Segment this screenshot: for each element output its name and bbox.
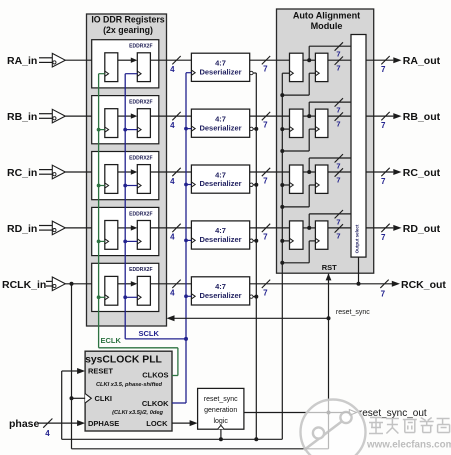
wire DDR FF1 to FF2 RCLK bbox=[118, 281, 138, 286]
svg-text:7: 7 bbox=[336, 120, 340, 129]
node SCLK rail junction RB bbox=[184, 127, 188, 131]
svg-text:Deserializer: Deserializer bbox=[199, 179, 241, 188]
node align clock rail junction RD bbox=[280, 239, 284, 243]
svg-text:CLKI: CLKI bbox=[95, 394, 113, 403]
svg-text:7: 7 bbox=[336, 175, 340, 184]
flip-flop align stage2 RC bbox=[315, 165, 328, 193]
wire buffer RB to DDR register bbox=[65, 115, 105, 117]
wire align FF1 to FF2 RB bbox=[303, 115, 315, 117]
svg-text:EDDRX2F: EDDRX2F bbox=[129, 211, 152, 217]
svg-text:7: 7 bbox=[336, 64, 340, 73]
flip-flop DDR left RB bbox=[105, 109, 118, 138]
deserializer 4:7 RCLK bbox=[191, 277, 249, 305]
input buffer RCLK bbox=[46, 277, 65, 291]
svg-text:7: 7 bbox=[336, 50, 340, 59]
node SCLK junction RB bbox=[123, 128, 127, 132]
node align clock rail junction RB bbox=[280, 127, 284, 131]
svg-text:Auto Alignment: Auto Alignment bbox=[293, 11, 360, 21]
wire RCK output bbox=[250, 280, 392, 288]
arrow reset_sync_out bbox=[349, 410, 356, 416]
wire SCLK to deserializer clock RB bbox=[186, 128, 191, 130]
svg-text:RST: RST bbox=[322, 263, 337, 272]
node reset_sync out junction bbox=[327, 411, 331, 415]
wire SCLK to deserializer clock RD bbox=[186, 239, 191, 241]
node align clock branch RA bbox=[280, 93, 284, 97]
node ECLK junction RC bbox=[97, 184, 101, 188]
node align clock rail junction RC bbox=[280, 183, 284, 187]
wire reset_sync vertical bbox=[328, 274, 330, 449]
wire bypass to mux RD bbox=[309, 210, 351, 228]
svg-text:7: 7 bbox=[381, 233, 386, 242]
wire DDR FF1 to FF2 RD bbox=[118, 225, 138, 230]
svg-text:RA_in: RA_in bbox=[7, 55, 37, 67]
svg-text:reset_sync: reset_sync bbox=[336, 309, 370, 316]
svg-text:Module: Module bbox=[311, 21, 343, 31]
svg-text:7: 7 bbox=[381, 177, 386, 186]
node align tap RC bbox=[307, 170, 311, 174]
svg-text:4:7: 4:7 bbox=[215, 282, 226, 291]
svg-text:7: 7 bbox=[381, 289, 386, 298]
node SCLK branch junction bbox=[184, 337, 188, 341]
deserializer sync pin RD bbox=[250, 239, 257, 242]
arrow into reset generation bbox=[190, 420, 198, 426]
svg-text:CLKOS: CLKOS bbox=[142, 371, 168, 380]
svg-text:ECLK: ECLK bbox=[101, 336, 122, 345]
svg-text:RCLK_in: RCLK_in bbox=[2, 279, 46, 291]
node SCLK rail junction RD bbox=[184, 239, 188, 243]
wire SCLK stub RCLK bbox=[125, 296, 137, 298]
wire ECLK rail bbox=[99, 74, 178, 376]
DDR register cell RB bbox=[92, 96, 159, 144]
wire alignment clock rail bbox=[281, 73, 283, 439]
deserializer sync pin RCLK bbox=[250, 295, 257, 298]
wire align FF1 to FF2 RC bbox=[303, 171, 315, 173]
svg-text:Deserializer: Deserializer bbox=[199, 291, 241, 300]
wire mux to output RC bbox=[366, 168, 393, 176]
svg-text:7: 7 bbox=[381, 121, 386, 130]
node SCLK junction RC bbox=[123, 184, 127, 188]
arrow reset into DDR box bbox=[167, 315, 175, 321]
wire phase input bbox=[38, 419, 78, 428]
wire align clock FF2 RA bbox=[282, 73, 315, 95]
svg-text:RD_out: RD_out bbox=[403, 223, 441, 235]
wire ECLK stub RCLK bbox=[99, 296, 105, 298]
svg-text:Deserializer: Deserializer bbox=[199, 67, 241, 76]
arrow into PLL DPHASE bbox=[77, 420, 85, 426]
svg-text:DPHASE: DPHASE bbox=[88, 419, 119, 428]
deserializer 4:7 RD bbox=[191, 221, 249, 249]
flip-flop DDR left RA bbox=[105, 53, 118, 82]
reset_sync generation logic block bbox=[198, 388, 244, 429]
svg-text:4: 4 bbox=[45, 429, 50, 438]
wire deserializer to alignment FF RC bbox=[250, 168, 290, 176]
node ECLK junction RD bbox=[97, 240, 101, 244]
output arrow RB bbox=[393, 113, 401, 119]
wire buffer RCLK to DDR register bbox=[65, 283, 105, 285]
wire bypass to mux RC bbox=[309, 154, 351, 172]
wire ECLK stub RC bbox=[99, 185, 105, 187]
svg-text:7: 7 bbox=[263, 232, 268, 241]
wire DDR FF1 to FF2 RA bbox=[118, 58, 138, 63]
svg-text:7: 7 bbox=[336, 217, 340, 226]
watermark CJK text bbox=[369, 418, 450, 434]
wire buffer RA to DDR register bbox=[65, 59, 105, 61]
svg-text:4:7: 4:7 bbox=[215, 114, 226, 123]
PLL sysCLOCK block bbox=[85, 351, 172, 431]
svg-text:reset_sync: reset_sync bbox=[204, 396, 238, 403]
wire ECLK stub RB bbox=[99, 129, 105, 131]
svg-text:RCK_out: RCK_out bbox=[401, 279, 446, 291]
wire DDR to deserializer RC bbox=[150, 168, 191, 176]
node reset generation clock junction bbox=[219, 437, 223, 441]
svg-text:7: 7 bbox=[336, 161, 340, 170]
svg-text:LOCK: LOCK bbox=[146, 419, 168, 428]
wire deserializer to alignment FF RD bbox=[250, 224, 290, 232]
svg-text:CLKI x3.5, phase-shifted: CLKI x3.5, phase-shifted bbox=[96, 382, 163, 388]
svg-text:7: 7 bbox=[263, 65, 268, 74]
svg-text:generation: generation bbox=[204, 407, 237, 414]
svg-text:Deserializer: Deserializer bbox=[199, 123, 241, 132]
wire align FF2 to mux RD bbox=[328, 224, 351, 232]
wire align clock FF1 RA bbox=[282, 72, 289, 74]
wire SCLK to deserializer clock RCLK bbox=[186, 295, 191, 297]
flip-flop DDR right RD bbox=[137, 221, 150, 250]
flip-flop align stage2 RD bbox=[315, 221, 328, 249]
wire SCLK rail in DDR box bbox=[125, 74, 186, 339]
svg-text:EDDRX2F: EDDRX2F bbox=[129, 100, 152, 106]
wire CLKI stub bbox=[72, 397, 86, 399]
wire mux to output RB bbox=[366, 112, 393, 120]
svg-text:RC_out: RC_out bbox=[403, 167, 441, 179]
node CLKI junction bbox=[70, 396, 74, 400]
wire align FF2 to mux RB bbox=[328, 112, 351, 120]
flip-flop DDR right RB bbox=[137, 109, 150, 138]
wire DDR to deserializer RB bbox=[150, 112, 191, 120]
wire bottom clock net bbox=[62, 371, 283, 439]
svg-text:4: 4 bbox=[170, 121, 175, 130]
svg-text:RESET: RESET bbox=[88, 367, 113, 376]
wire deserializer sync rail bbox=[255, 73, 257, 439]
input buffer RD bbox=[39, 221, 65, 235]
wire align clock FF2 RC bbox=[282, 185, 315, 207]
wire align FF1 to FF2 RA bbox=[303, 59, 315, 61]
flip-flop align stage1 RB bbox=[290, 109, 304, 137]
svg-text:IO DDR Registers: IO DDR Registers bbox=[91, 15, 164, 25]
IO DDR Registers module box bbox=[87, 14, 167, 326]
svg-text:RC_in: RC_in bbox=[7, 167, 37, 179]
wire SCLK to deserializer clock RA bbox=[186, 72, 191, 74]
wire bypass to mux RB bbox=[309, 98, 351, 116]
flip-flop DDR left RCLK bbox=[105, 276, 118, 305]
deserializer sync pin RB bbox=[250, 127, 257, 130]
flip-flop align stage1 RC bbox=[290, 165, 304, 193]
flip-flop DDR right RA bbox=[137, 53, 150, 82]
svg-text:4: 4 bbox=[170, 65, 175, 74]
wire SCLK stub RC bbox=[125, 185, 137, 187]
wire reset generation clock leg bbox=[220, 429, 222, 439]
wire align clock FF1 RB bbox=[282, 128, 289, 130]
svg-text:7: 7 bbox=[263, 288, 268, 297]
svg-text:4: 4 bbox=[170, 177, 175, 186]
input buffer RA bbox=[39, 53, 65, 67]
svg-text:Deserializer: Deserializer bbox=[199, 235, 241, 244]
wire align FF2 to mux RC bbox=[328, 168, 351, 176]
wire align clock FF1 RC bbox=[282, 184, 289, 186]
wire DDR FF1 to FF2 RB bbox=[118, 113, 138, 118]
PLL clock chevron CLKI bbox=[85, 394, 91, 403]
svg-text:EDDRX2F: EDDRX2F bbox=[129, 267, 152, 273]
svg-text:7: 7 bbox=[336, 106, 340, 115]
wire SCLK stub RA bbox=[125, 73, 137, 75]
wire mux to output RD bbox=[366, 224, 393, 232]
wire RCLK feedback leg bbox=[72, 284, 329, 449]
svg-text:CLKOK: CLKOK bbox=[142, 399, 169, 408]
svg-text:SCLK: SCLK bbox=[139, 329, 160, 338]
node align clock branch RD bbox=[280, 261, 284, 265]
DDR register cell RA bbox=[92, 40, 159, 88]
deserializer sync pin RC bbox=[250, 183, 257, 186]
wire DDR to deserializer RD bbox=[150, 224, 191, 232]
output arrow RA bbox=[393, 57, 401, 63]
svg-text:RB_in: RB_in bbox=[7, 111, 37, 123]
deserializer 4:7 RB bbox=[191, 109, 249, 137]
output arrow RD bbox=[393, 225, 401, 231]
DDR register cell RC bbox=[92, 152, 159, 200]
svg-text:sysCLOCK PLL: sysCLOCK PLL bbox=[85, 355, 162, 366]
node sync rail junction RD bbox=[254, 239, 258, 243]
wire deserializer to alignment FF RA bbox=[250, 56, 290, 64]
svg-text:EDDRX2F: EDDRX2F bbox=[129, 44, 152, 50]
output arrow RCK bbox=[392, 281, 400, 287]
node align tap RD bbox=[307, 226, 311, 230]
node sync rail junction RC bbox=[254, 183, 258, 187]
wire reset_sync to DDR registers bbox=[173, 317, 329, 319]
DDR register cell RD bbox=[92, 207, 159, 255]
svg-text:4:7: 4:7 bbox=[215, 226, 226, 235]
flip-flop align stage1 RA bbox=[290, 53, 304, 81]
input buffer RC bbox=[39, 165, 65, 179]
node align clock branch RC bbox=[280, 205, 284, 209]
svg-text:4: 4 bbox=[170, 233, 175, 242]
wire bypass to mux RA bbox=[309, 42, 351, 60]
svg-text:Output select: Output select bbox=[355, 224, 360, 253]
wire buffer RD to DDR register bbox=[65, 227, 105, 229]
node SCLK junction RCLK bbox=[123, 295, 127, 299]
reset_sync generation logic clock chevron bbox=[218, 425, 225, 429]
svg-text:www.elecfans.com: www.elecfans.com bbox=[366, 440, 451, 451]
node SCLK rail junction RCLK bbox=[184, 294, 188, 298]
watermark logo circle bbox=[301, 400, 366, 455]
svg-text:4:7: 4:7 bbox=[215, 59, 226, 68]
svg-text:RD_in: RD_in bbox=[7, 223, 37, 235]
svg-text:RB_out: RB_out bbox=[403, 111, 441, 123]
svg-text:reset_sync_out: reset_sync_out bbox=[359, 408, 427, 419]
flip-flop DDR right RCLK bbox=[137, 276, 150, 305]
node RCLK branch junction bbox=[70, 282, 74, 286]
node align tap RB bbox=[307, 114, 311, 118]
deserializer 4:7 RC bbox=[191, 165, 249, 193]
svg-text:7: 7 bbox=[381, 65, 386, 74]
node ECLK junction RB bbox=[97, 128, 101, 132]
wire deserializer to alignment FF RB bbox=[250, 112, 290, 120]
flip-flop align stage1 RD bbox=[290, 221, 304, 249]
node sync rail bottom junction bbox=[254, 437, 258, 441]
wire ECLK stub RD bbox=[99, 240, 105, 242]
node sync rail junction RCLK bbox=[254, 295, 258, 299]
wire align clock FF2 RB bbox=[282, 129, 315, 151]
wire DDR FF1 to FF2 RC bbox=[118, 169, 138, 174]
node SCLK junction RD bbox=[123, 240, 127, 244]
flip-flop align stage2 RA bbox=[315, 53, 328, 81]
wire SCLK vertical to deserializers bbox=[172, 73, 186, 403]
svg-text:phase: phase bbox=[9, 418, 40, 430]
arrow RST into alignment module bbox=[326, 273, 332, 280]
wire align FF2 to mux RA bbox=[328, 57, 351, 65]
wire DDR to deserializer RCLK bbox=[150, 280, 191, 288]
node sync rail junction RB bbox=[254, 127, 258, 131]
svg-text:4: 4 bbox=[170, 289, 175, 298]
wire reset_sync_out bbox=[244, 412, 350, 414]
svg-text:7: 7 bbox=[336, 231, 340, 240]
svg-text:(2x gearing): (2x gearing) bbox=[103, 25, 153, 35]
DDR register cell RCLK bbox=[92, 263, 159, 311]
wire align clock FF2 RD bbox=[282, 241, 315, 263]
deserializer sync pin RA bbox=[250, 71, 257, 74]
wire SCLK to deserializer clock RC bbox=[186, 184, 191, 186]
flip-flop DDR left RD bbox=[105, 221, 118, 250]
node SCLK rail junction RC bbox=[184, 183, 188, 187]
wire DDR to deserializer RA bbox=[150, 56, 191, 64]
deserializer 4:7 RA bbox=[191, 53, 249, 81]
wire SCLK stub RD bbox=[125, 240, 137, 242]
node reset_sync to DDR junction bbox=[327, 316, 331, 320]
node RCK mux clock junction bbox=[357, 282, 361, 286]
output select mux block bbox=[351, 35, 366, 258]
wire align FF1 to FF2 RD bbox=[303, 227, 315, 229]
output arrow RC bbox=[393, 169, 401, 175]
wire SCLK stub RB bbox=[125, 129, 137, 131]
node align clock branch RB bbox=[280, 149, 284, 153]
wire mux clock stub bbox=[358, 257, 360, 284]
wire buffer RC to DDR register bbox=[65, 171, 105, 173]
flip-flop DDR left RC bbox=[105, 165, 118, 194]
svg-text:(CLKI x3.5)/2, 0deg: (CLKI x3.5)/2, 0deg bbox=[112, 410, 163, 416]
flip-flop DDR right RC bbox=[137, 165, 150, 194]
svg-text:EDDRX2F: EDDRX2F bbox=[129, 155, 152, 161]
wire ECLK stub RA bbox=[99, 73, 105, 75]
flip-flop align stage2 RB bbox=[315, 109, 328, 137]
svg-text:7: 7 bbox=[263, 177, 268, 186]
arrow into PLL RESET bbox=[77, 368, 85, 374]
wire LOCK to reset generation bbox=[172, 422, 190, 424]
input buffer RB bbox=[39, 109, 65, 123]
svg-text:7: 7 bbox=[263, 121, 268, 130]
Auto Alignment Module box bbox=[277, 9, 374, 273]
node ECLK junction RCLK bbox=[97, 295, 101, 299]
svg-text:RA_out: RA_out bbox=[403, 55, 441, 67]
svg-text:logic: logic bbox=[213, 418, 228, 425]
svg-text:4:7: 4:7 bbox=[215, 170, 226, 179]
node align tap RA bbox=[307, 58, 311, 62]
wire align clock FF1 RD bbox=[282, 240, 289, 242]
wire mux to output RA bbox=[366, 56, 393, 64]
